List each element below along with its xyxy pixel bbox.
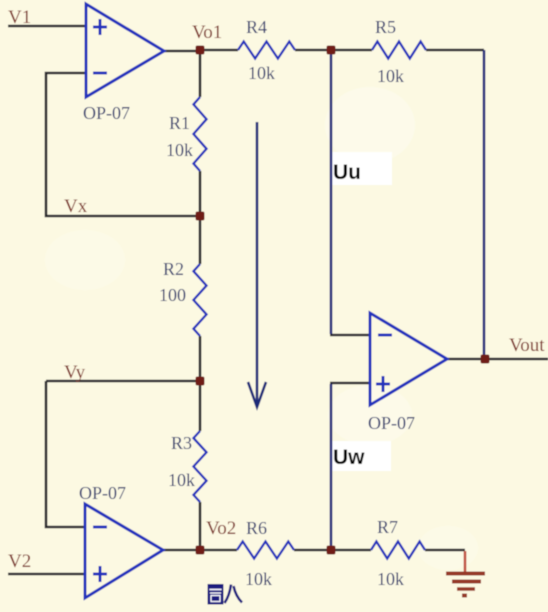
svg-text:10k: 10k <box>245 569 272 589</box>
svg-text:R1: R1 <box>169 113 190 133</box>
svg-text:OP-07: OP-07 <box>83 103 130 123</box>
svg-text:V2: V2 <box>8 551 31 572</box>
svg-text:R7: R7 <box>377 517 398 537</box>
svg-text:R4: R4 <box>246 17 267 37</box>
svg-text:OP-07: OP-07 <box>79 483 126 503</box>
svg-text:10k: 10k <box>166 140 193 160</box>
svg-text:10k: 10k <box>377 66 404 86</box>
svg-text:R3: R3 <box>171 433 192 453</box>
svg-text:10k: 10k <box>248 63 275 83</box>
svg-text:Vout: Vout <box>509 335 545 356</box>
svg-text:Vx: Vx <box>64 196 88 217</box>
svg-text:10k: 10k <box>168 470 195 490</box>
svg-text:V1: V1 <box>8 7 31 28</box>
svg-text:Vo2: Vo2 <box>206 518 236 539</box>
svg-text:R5: R5 <box>375 17 396 37</box>
svg-text:R2: R2 <box>163 259 184 279</box>
svg-text:Vo1: Vo1 <box>192 22 222 43</box>
svg-text:10k: 10k <box>377 569 404 589</box>
svg-text:OP-07: OP-07 <box>368 413 415 433</box>
svg-text:Uw: Uw <box>333 446 365 469</box>
svg-text:Uu: Uu <box>333 161 361 184</box>
svg-text:R6: R6 <box>246 518 267 538</box>
svg-text:100: 100 <box>159 285 186 305</box>
svg-text:Vy: Vy <box>64 362 86 383</box>
